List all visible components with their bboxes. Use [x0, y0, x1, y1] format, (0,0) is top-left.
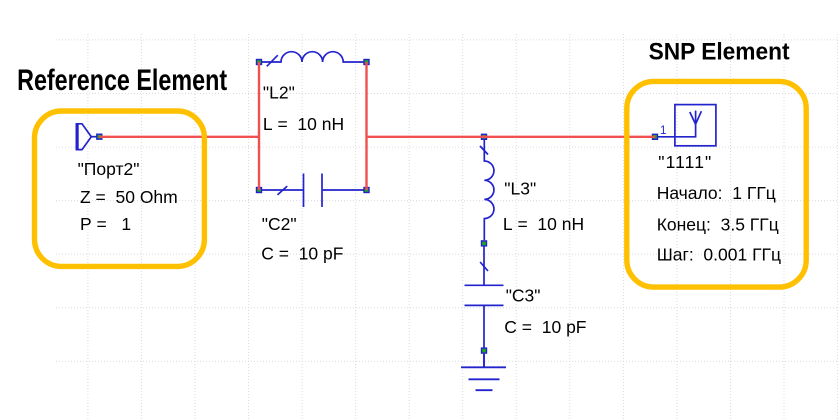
svg-text:Z = 50 Ohm: Z = 50 Ohm — [80, 187, 178, 207]
svg-text:"C2": "C2" — [262, 214, 297, 234]
annotation highlight box: Reference Element — [35, 111, 205, 266]
svg-text:C = 10 pF: C = 10 pF — [261, 244, 343, 264]
svg-text:L = 10 nH: L = 10 nH — [503, 214, 584, 234]
node: L2/C2 bottom-left corner — [257, 188, 262, 193]
annotation highlight box: SNP Element — [627, 81, 806, 287]
inductor L3 (vertical series branch) — [480, 140, 494, 240]
node: port output — [97, 134, 102, 139]
node: L2/C2 bottom-right corner — [364, 188, 369, 193]
SNP element U1 (box with antenna symbol) — [658, 105, 716, 146]
svg-text:C = 10 pF: C = 10 pF — [504, 317, 586, 337]
wire: L2/C2 left vertical — [258, 62, 260, 190]
svg-text:"C3": "C3" — [506, 286, 541, 306]
svg-text:"L3": "L3" — [504, 179, 536, 199]
wire: L2/C2 right vertical — [365, 62, 367, 190]
wire: port to L2/C2 left side — [99, 136, 259, 138]
svg-text:SNP Element: SNP Element — [649, 38, 790, 65]
node: SNP element input — [653, 134, 658, 139]
svg-text:"Порт2": "Порт2" — [78, 159, 140, 179]
node: L2/C2 top-right corner — [364, 60, 369, 65]
inductor L2 (horizontal, top of parallel pair) — [262, 52, 364, 67]
svg-text:Шаг: 0.001 ГГц: Шаг: 0.001 ГГц — [657, 245, 781, 265]
svg-text:L = 10 nH: L = 10 nH — [263, 114, 344, 134]
svg-text:Reference Element: Reference Element — [17, 63, 227, 96]
svg-text:"L2": "L2" — [263, 83, 295, 103]
svg-text:"1111": "1111" — [658, 152, 712, 172]
wire: L2/C2 right side to SNP element (through L3 junction) — [367, 136, 656, 138]
capacitor C2 (horizontal, bottom of parallel pair) — [262, 174, 364, 208]
ground symbol — [461, 354, 506, 391]
svg-text:Начало: 1 ГГц: Начало: 1 ГГц — [657, 183, 776, 203]
port P2 symbol — [76, 124, 97, 150]
svg-text:P = 1: P = 1 — [80, 214, 131, 234]
node: junction of L3 branch with main wire — [482, 134, 487, 139]
svg-text:Конец: 3.5 ГГц: Конец: 3.5 ГГц — [657, 215, 779, 235]
node: L2/C2 top-left corner — [257, 60, 262, 65]
svg-text:1: 1 — [660, 125, 666, 137]
capacitor C3 (vertical series branch) — [465, 247, 504, 348]
node: between L3 and C3 — [482, 241, 487, 246]
node: between C3 and ground — [482, 348, 487, 353]
